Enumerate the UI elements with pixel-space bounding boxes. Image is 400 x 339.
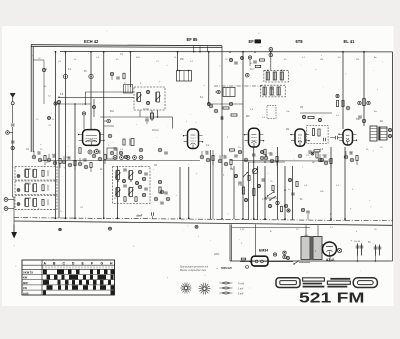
- node legend circle 1: [246, 265, 249, 269]
- svg-text:KW: KW: [23, 276, 28, 280]
- capacitor C31 cluster: [248, 56, 260, 68]
- resistor socket cluster i: [264, 152, 278, 166]
- svg-text:5 mV: 5 mV: [238, 293, 244, 295]
- svg-text:F: F: [91, 261, 93, 265]
- resistor R40 cluster: [300, 113, 332, 122]
- resistor R50 on x364: [358, 99, 370, 106]
- inductor oscillator coil pack 2 L8-L11: [113, 166, 151, 204]
- svg-text:MW: MW: [23, 281, 28, 285]
- label EF85: [187, 37, 199, 42]
- wire EF85 anode elbow: [100, 117, 173, 129]
- switch S1 contacts: [267, 191, 276, 201]
- resistor R1: [79, 148, 81, 154]
- wire shield dash line: [214, 85, 262, 87]
- symbol legend lens 2: [220, 287, 244, 290]
- svg-text:1M: 1M: [268, 153, 271, 155]
- wire AVC link: [248, 161, 285, 163]
- capacitor cluster x115 y75: [110, 72, 125, 80]
- wire vertical x65: [65, 52, 67, 218]
- wire vertical x331: [330, 147, 332, 221]
- node antenna terminal: [6, 131, 13, 135]
- resistor R22: [253, 189, 255, 196]
- wire heater run: [40, 160, 330, 227]
- node bank taps: [17, 175, 20, 206]
- logo DESO: [276, 278, 377, 288]
- wire vertical x257: [257, 166, 259, 220]
- wire vertical x285: [284, 166, 286, 220]
- svg-text:60+5: 60+5: [129, 187, 135, 189]
- tube V4 6T8: [295, 129, 305, 146]
- wire vertical x265: [264, 166, 266, 220]
- antenna: [10, 93, 15, 123]
- svg-text:G: G: [101, 261, 104, 265]
- symbol legend lens 1: [220, 282, 245, 285]
- capacitor electrolytic C61: [374, 245, 382, 256]
- capacitor socket cluster l: [230, 149, 242, 157]
- capacitor C8 cluster: [158, 148, 168, 154]
- svg-text:464 kc: 464 kc: [152, 130, 160, 132]
- resistor R21: [242, 187, 244, 194]
- resistor R30 cluster: [298, 150, 324, 162]
- tube V6 AZ41 rectifier: [323, 242, 337, 257]
- svg-text:10,7: 10,7: [250, 69, 255, 71]
- capacitor cluster IF stage: [104, 119, 143, 152]
- capacitor C50: [330, 136, 342, 140]
- svg-text:60/16: 60/16: [25, 182, 32, 185]
- wire vertical x55: [55, 52, 57, 218]
- wire antenna down: [13, 131, 14, 232]
- wire left border double vertical: [31, 45, 33, 152]
- node pins V2: [183, 135, 203, 142]
- resistor coupling network: [307, 126, 329, 144]
- node pins V3: [244, 134, 264, 141]
- resistor socket cluster k: [344, 151, 358, 165]
- wire chassis dash-dot line: [14, 218, 392, 221]
- label EABC80: [249, 39, 262, 44]
- svg-text:1M: 1M: [320, 59, 323, 61]
- node pins V4: [290, 134, 309, 141]
- node tube socket pins V2: [113, 156, 143, 160]
- wire rectifier feeds: [322, 245, 376, 262]
- node j x266: [261, 151, 267, 157]
- resistor R12 cluster: [158, 180, 168, 194]
- svg-text:521 FM: 521 FM: [299, 290, 365, 307]
- wire vertical x292: [292, 166, 294, 220]
- wire vertical x277: [277, 147, 279, 220]
- svg-text:¼ mV: ¼ mV: [238, 282, 244, 285]
- wire vertical x343 top: [342, 52, 344, 129]
- capacitor C44 cluster: [276, 201, 290, 212]
- svg-text:0,1M: 0,1M: [238, 185, 243, 187]
- svg-text:6T8: 6T8: [296, 39, 304, 44]
- node pin box osc: [124, 83, 133, 94]
- labels component values: [26, 54, 384, 256]
- inductor oscillator coil pack L7: [134, 87, 165, 110]
- wire vertical x103: [103, 52, 105, 219]
- svg-text:5000 Ω/V: 5000 Ω/V: [221, 266, 232, 270]
- capacitor C40 cluster: [244, 149, 266, 162]
- capacitor top row denser: [229, 51, 264, 64]
- wire vertical x59: [58, 104, 60, 218]
- svg-text:60/16: 60/16: [25, 168, 32, 171]
- label 6T8: [296, 39, 304, 44]
- svg-text:1: 1: [246, 267, 247, 269]
- svg-text:50+50: 50+50: [354, 241, 361, 243]
- wire stub x207: [207, 46, 209, 52]
- resistor AM detector cluster: [207, 102, 243, 120]
- capacitor audio cluster 3: [284, 178, 298, 195]
- node j3: [54, 100, 61, 105]
- transformer FM IF can T2: [264, 70, 289, 82]
- node grid stub V1: [82, 112, 85, 130]
- transformer IF T1 top box: [177, 70, 192, 81]
- tube V5 EL41: [343, 130, 353, 146]
- svg-text:2x450: 2x450: [143, 108, 150, 110]
- svg-text:LW: LW: [23, 286, 27, 290]
- resistor screen feed cluster: [336, 94, 366, 122]
- node phono jack 2: [4, 207, 14, 211]
- note symbol explanation text: [180, 266, 208, 273]
- resistor volume pot: [243, 168, 258, 177]
- label AZ41: [326, 258, 335, 262]
- wire right border vertical: [390, 52, 393, 261]
- fuse pair: [273, 251, 289, 260]
- wire vertical x180: [179, 167, 181, 219]
- capacitor feed-through C30: [269, 48, 273, 71]
- wire vertical x364 top: [363, 52, 365, 126]
- capacitor dashed box det: [267, 106, 276, 119]
- capacitor C11: [11, 141, 15, 150]
- svg-text:Tr: Tr: [60, 210, 62, 213]
- svg-text:EM: EM: [246, 116, 250, 118]
- wire stub x200: [199, 46, 201, 52]
- wire HT supply bus: [60, 51, 393, 53]
- transformer AM IF T4: [215, 88, 235, 97]
- node j5: [48, 117, 55, 122]
- svg-text:Spannungen gemessen mit: Spannungen gemessen mit: [180, 266, 208, 269]
- svg-text:ECH 42: ECH 42: [84, 39, 99, 44]
- wire vertical x130: [130, 52, 132, 87]
- resistor socket cluster d: [78, 158, 92, 172]
- capacitor C10: [88, 150, 99, 155]
- table band-switch chart: [22, 260, 115, 295]
- capacitor antenna coupling: [11, 124, 15, 131]
- lamp pilot: [337, 248, 341, 252]
- wire connector y104: [56, 103, 92, 105]
- wire vertical x75: [74, 104, 76, 218]
- wire power bus: [230, 260, 390, 262]
- wire vertical x117: [117, 166, 119, 219]
- tube V3 EABC80: [249, 128, 260, 147]
- wire vertical x91: [90, 52, 92, 130]
- node j x247: [246, 73, 250, 77]
- speaker terminals: [388, 128, 391, 137]
- ground chassis arrow: [11, 224, 17, 238]
- wire vertical x345: [344, 147, 346, 221]
- capacitor socket cluster h: [218, 155, 232, 169]
- wire stub x140 box: [139, 110, 141, 117]
- wire stub x94: [93, 99, 96, 117]
- symbol legend lens 3: [220, 292, 244, 295]
- transformer output T5: [370, 126, 387, 141]
- wire osc feed upper: [85, 92, 135, 105]
- svg-text:2M: 2M: [356, 59, 359, 61]
- inductor antenna coil bank L1-L6: [15, 167, 57, 210]
- wire lower solid bus: [14, 221, 392, 225]
- svg-text:220V: 220V: [214, 254, 220, 256]
- wire top border double line: [31, 45, 222, 48]
- label 5mF: [136, 212, 153, 219]
- node j4 upper left: [33, 58, 52, 104]
- wire stub x157 box: [157, 110, 159, 118]
- svg-text:1k: 1k: [52, 119, 54, 121]
- transformer FM IF can T3: [261, 85, 286, 97]
- svg-text:EM34: EM34: [259, 248, 268, 252]
- svg-text:UKW TA: UKW TA: [23, 271, 33, 275]
- wire EM34 out: [240, 258, 310, 265]
- tube V2 EF85: [188, 129, 199, 149]
- wire osc feed lower: [58, 97, 134, 99]
- inductor L12 under box: [151, 110, 154, 121]
- svg-text:60/16: 60/16: [25, 197, 32, 200]
- logo 521 FM: [299, 290, 365, 307]
- node j2: [63, 74, 67, 78]
- wire vertical x255 to EM34: [255, 224, 257, 255]
- node phono jack 1: [4, 198, 14, 202]
- label EL41: [344, 39, 356, 44]
- label 5000 ohm/V: [221, 266, 232, 270]
- wire vertical x177: [177, 52, 179, 71]
- wire vertical x188: [188, 167, 190, 219]
- capacitor electrolytic C60: [354, 241, 363, 256]
- capacitor socket cluster a: [32, 151, 46, 165]
- svg-text:0,5M: 0,5M: [262, 199, 267, 201]
- wire vertical x210 pair: [211, 150, 214, 219]
- node pins V1: [78, 134, 105, 141]
- transformer mains T6: [301, 235, 322, 260]
- node j under bus: [59, 225, 198, 231]
- svg-text:EFS: EFS: [305, 235, 310, 237]
- node bus junctions: [55, 51, 365, 220]
- resistor socket cluster f: [107, 148, 128, 159]
- svg-text:AUS: AUS: [23, 291, 29, 295]
- capacitor socket cluster j: [318, 154, 332, 168]
- wire stub x193: [193, 46, 195, 52]
- capacitor socket cluster e: [92, 150, 106, 164]
- resistor R23 pair: [311, 150, 320, 155]
- capacitor audio cluster 1: [234, 174, 250, 201]
- wire vertical x253: [253, 147, 255, 220]
- capacitor socket cluster c: [62, 156, 76, 170]
- svg-text:1 mV: 1 mV: [238, 288, 244, 290]
- capacitor padder cluster: [154, 190, 170, 204]
- wire FM-section right border vertical: [221, 46, 223, 219]
- tube V1 ECH42: [83, 130, 100, 146]
- capacitor audio cluster 2: [257, 178, 274, 207]
- wire vertical x208: [208, 52, 210, 104]
- wire vertical x234: [233, 166, 235, 219]
- resistor socket cluster g: [200, 151, 214, 165]
- label EM34: [259, 248, 268, 252]
- resistor socket cluster b: [47, 154, 61, 168]
- svg-text:2x: 2x: [124, 83, 126, 85]
- svg-text:6,3V: 6,3V: [240, 229, 245, 231]
- svg-text:1M: 1M: [230, 169, 233, 171]
- wire vertical x243: [242, 52, 244, 220]
- svg-text:1M: 1M: [300, 107, 303, 109]
- node pins V5: [338, 134, 357, 141]
- capacitor C45 cluster: [301, 208, 310, 219]
- svg-text:≈5mF: ≈5mF: [136, 215, 143, 218]
- wire stub x306: [305, 225, 307, 236]
- symbol dial lamp 2: [199, 283, 211, 295]
- wire stub x318: [317, 225, 319, 236]
- tube V7 EM34 magic eye: [245, 256, 268, 266]
- svg-text:EF 85: EF 85: [187, 37, 199, 42]
- svg-text:Messw. entsprechen dem: Messw. entsprechen dem: [180, 269, 206, 272]
- wire stub y198: [265, 197, 278, 198]
- svg-text:EF: EF: [249, 39, 255, 44]
- symbol dial lamp 1: [180, 283, 191, 294]
- wire vertical x248: [248, 162, 250, 219]
- wire vertical x230 to rect: [230, 224, 231, 261]
- capacitor C20: [145, 117, 149, 124]
- svg-text:EL 41: EL 41: [344, 39, 356, 44]
- label ECH42: [84, 39, 99, 44]
- svg-text:2M: 2M: [286, 129, 289, 131]
- node j1: [89, 74, 93, 78]
